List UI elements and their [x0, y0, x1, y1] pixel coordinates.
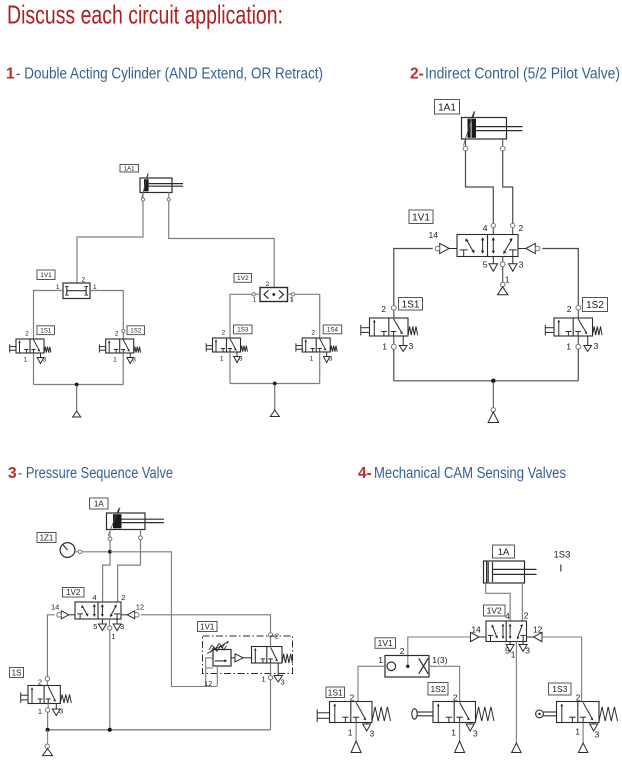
valve 1S2 (3/2 NC pushbutton) — [106, 339, 134, 353]
svg-text:Mechanical CAM Sensing Valves: Mechanical CAM Sensing Valves — [374, 465, 566, 482]
svg-text:4-: 4- — [358, 465, 372, 482]
valve 1S1 label (circuit 4) — [326, 687, 345, 698]
heading circuit 2 — [410, 66, 620, 83]
svg-text:12: 12 — [204, 679, 212, 688]
cylinder 1A1 label (circuit 1) — [120, 165, 139, 173]
svg-text:1: 1 — [6, 66, 15, 83]
pilot wire 12 to valve 1S2 port 2 — [542, 249, 578, 306]
cylinder 1A label (circuit 3) — [90, 498, 109, 509]
svg-text:14: 14 — [429, 230, 439, 240]
pilot 12 of 1V2 c4 — [527, 636, 534, 638]
air source under 1V1 — [498, 287, 508, 295]
valve 1V2 (5/2 pilot valve, circuit 4) — [486, 621, 527, 642]
svg-text:1: 1 — [310, 356, 314, 363]
heading circuit 3 — [8, 465, 173, 482]
junction dot circuit 2 — [491, 379, 495, 383]
supply bus circuit 1 left loop — [34, 384, 124, 386]
svg-text:1S3: 1S3 — [552, 684, 567, 694]
wire cylinder left port to 1V2 port 4 (c4) — [486, 583, 510, 621]
heading circuit 1 — [6, 66, 323, 83]
svg-text:2: 2 — [38, 678, 42, 687]
svg-text:1: 1 — [566, 342, 571, 352]
svg-text:Indirect Control (5/2 Pilot Va: Indirect Control (5/2 Pilot Valve) — [425, 66, 620, 83]
pressure gauge 1Z1 label — [37, 533, 56, 543]
svg-text:1: 1 — [261, 675, 265, 684]
cylinder 1A1 (circuit 2) — [462, 118, 507, 140]
svg-text:1S1: 1S1 — [328, 687, 343, 697]
wire 1S3 port 1 down to supply bus — [229, 352, 231, 384]
wire gauge to junction — [82, 551, 110, 553]
svg-text:1V1: 1V1 — [412, 212, 430, 223]
svg-text:1: 1 — [290, 297, 294, 304]
air source left loop — [73, 411, 81, 417]
pilot 12 of 1V1 — [518, 248, 526, 250]
wire 1V2 right port to valve 1S4 port 2 — [288, 293, 292, 295]
svg-text:Discuss each circuit applicati: Discuss each circuit application: — [7, 0, 283, 30]
supply line 1V2 port 1 down to air source (c4) — [515, 642, 517, 744]
port stub left cylinder (c3) — [109, 530, 111, 537]
svg-text:2: 2 — [519, 223, 524, 233]
wire cylinder left port to valve 1V1 port 2 — [77, 201, 143, 283]
junction dot left loop — [75, 383, 79, 387]
svg-text:5: 5 — [505, 646, 510, 656]
svg-text:2: 2 — [115, 331, 119, 338]
cylinder 1A1 label (circuit 2) — [435, 100, 460, 115]
svg-text:3: 3 — [473, 729, 478, 739]
pilot wire 14 down to valve 1S port 2 — [47, 615, 54, 677]
svg-text:1: 1 — [253, 297, 257, 304]
svg-text:3: 3 — [239, 356, 243, 363]
svg-text:1S3: 1S3 — [554, 550, 571, 561]
svg-text:1: 1 — [38, 707, 42, 716]
svg-text:3: 3 — [8, 465, 17, 482]
wire 1V1 right port to valve 1S2 port 2 (c4) — [429, 666, 460, 701]
supply bus circuit 3 — [48, 729, 271, 731]
valve 1S2 label (circuit 2) — [583, 298, 608, 312]
svg-text:12: 12 — [136, 603, 144, 612]
pilot 14 of 1V1 — [449, 248, 457, 250]
wire 1V1 left port to valve 1S1 port 2 — [34, 291, 64, 340]
svg-text:1: 1 — [575, 727, 580, 737]
adjustment spring of 1V1 — [209, 643, 225, 650]
svg-text:1S4: 1S4 — [327, 327, 339, 334]
svg-text:3: 3 — [594, 341, 599, 351]
wire 1S2 port 1 to bus — [577, 336, 579, 344]
wire 1S1 port 1 to air source (c4) — [355, 723, 357, 742]
pilot wire 12 to valve 1S3 port 2 (c4) — [542, 637, 581, 702]
supply line 1V2 port 1 down to bus — [109, 619, 111, 626]
svg-text:2-: 2- — [410, 66, 424, 83]
pressure gauge 1Z1 — [60, 543, 75, 558]
svg-text:3: 3 — [281, 678, 285, 687]
pilot line 12 of 1V1 — [206, 658, 213, 687]
valve 1V2 label (circuit 3) — [63, 588, 85, 598]
svg-text:1S1: 1S1 — [402, 299, 420, 310]
svg-text:1: 1 — [111, 632, 115, 641]
svg-text:3: 3 — [59, 707, 63, 716]
svg-text:1A1: 1A1 — [438, 102, 456, 113]
valve 1S2 (3/2 NC plunger, circuit 4) — [433, 702, 476, 723]
svg-text:2: 2 — [275, 632, 279, 641]
svg-text:- Pressure Sequence Valve: - Pressure Sequence Valve — [18, 465, 173, 482]
valve 1S1 (3/2 NC pushbutton) — [16, 339, 44, 353]
junction dot right loop — [273, 382, 277, 386]
svg-text:3: 3 — [370, 729, 375, 739]
wire cylinder right port to valve 1V2 port 2 — [169, 201, 275, 287]
shuttle valve 1V2 (OR) — [260, 288, 288, 302]
check path of 1V1 — [231, 657, 235, 659]
air source under 1V2 c4 — [512, 743, 521, 753]
valve 1V2 label (circuit 4) — [484, 605, 506, 616]
valve 1V1 (two-pressure AND valve, circuit 4) — [385, 656, 429, 678]
relief element of 1V1 — [213, 650, 231, 667]
svg-text:1V1: 1V1 — [378, 638, 393, 648]
wire 1S1 port 1 to bus — [393, 336, 395, 344]
port stub right cylinder (c2) — [502, 139, 504, 146]
svg-text:1: 1 — [348, 728, 353, 738]
svg-text:1V1: 1V1 — [200, 622, 215, 631]
wire 1V2 left port to valve 1S3 port 2 — [255, 293, 260, 295]
supply line port 1 of 1V1 — [502, 257, 504, 263]
cylinder 1A label (circuit 4) — [493, 545, 515, 558]
svg-text:2: 2 — [121, 593, 125, 602]
wire junction to sequence-valve pilot line (down right side) — [110, 552, 217, 687]
svg-text:2: 2 — [576, 693, 581, 703]
svg-text:2: 2 — [222, 330, 226, 337]
svg-text:1A: 1A — [94, 499, 104, 508]
valve 1S label (circuit 3) — [10, 668, 24, 678]
pilot 14 of 1V2 c3 — [69, 614, 75, 616]
junction dot bus middle c3 — [108, 728, 112, 732]
pilot 12 of 1V2 c3 — [121, 614, 127, 616]
svg-text:2: 2 — [82, 277, 86, 284]
valve 1S3 (3/2 NC roller, circuit 4) — [557, 702, 600, 723]
svg-text:1V1: 1V1 — [40, 272, 52, 279]
valve 1V1 label (circuit 4) — [375, 638, 396, 649]
svg-text:3: 3 — [132, 357, 136, 364]
two-pressure valve 1V1 label — [37, 270, 55, 280]
heading circuit 4 — [358, 465, 566, 482]
svg-text:3: 3 — [120, 622, 124, 631]
svg-text:1S2: 1S2 — [430, 684, 445, 694]
valve 1S3 (3/2 NC pushbutton) — [213, 338, 241, 352]
svg-text:5: 5 — [483, 260, 488, 270]
svg-text:1A: 1A — [498, 547, 510, 558]
svg-text:2: 2 — [524, 611, 529, 621]
svg-text:4: 4 — [483, 223, 488, 233]
valve 1V1 (5/2 pilot valve) — [457, 235, 518, 257]
valve 1S1 label (circuit 2) — [399, 298, 423, 311]
wire 1S2 port 1 to air source (c4) — [459, 723, 461, 742]
svg-text:2: 2 — [567, 304, 572, 314]
3/2 element of 1V1 — [252, 647, 283, 664]
svg-text:1: 1 — [511, 650, 516, 660]
svg-text:4: 4 — [505, 611, 510, 621]
valve 1S (3/2 NC pushbutton, circuit 3) — [28, 686, 60, 704]
svg-text:5: 5 — [93, 622, 97, 631]
valve 1S4 label — [323, 325, 342, 334]
wire 1V1 left port to valve 1S1 port 2 (c4) — [358, 666, 385, 701]
cylinder 1A (circuit 4) — [484, 561, 525, 583]
svg-text:3: 3 — [43, 357, 47, 364]
air source right loop — [270, 410, 279, 417]
cylinder 1A (circuit 3) — [107, 513, 146, 530]
two-pressure valve 1V1 (AND) — [63, 283, 90, 299]
port stub right cylinder (c3) — [140, 530, 142, 536]
wire 1S1 port 1 down to supply bus — [33, 353, 35, 385]
valve 1S1 (3/2 NC plunger, circuit 4) — [330, 702, 373, 723]
air source under 1S1 c4 — [351, 741, 361, 753]
svg-text:1Z1: 1Z1 — [40, 533, 54, 542]
svg-text:12: 12 — [533, 625, 543, 635]
sequence valve 1V1 label (circuit 3) — [198, 622, 218, 632]
supply stub c3 — [47, 730, 49, 744]
svg-text:1S2: 1S2 — [130, 327, 142, 334]
valve 1V1 label (circuit 2) — [409, 210, 433, 224]
valve 1V2 (5/2 pilot valve, circuit 3) — [75, 602, 121, 619]
svg-text:1: 1 — [505, 275, 510, 285]
valve 1S3 label (circuit 4) — [549, 683, 572, 695]
valve 1S2 (3/2 NC pushbutton, circuit 2) — [554, 318, 593, 336]
svg-text:3: 3 — [595, 730, 600, 740]
wire cylinder left port to 5/2 valve port 4 — [466, 151, 494, 223]
svg-text:1(3): 1(3) — [432, 655, 447, 665]
svg-text:2: 2 — [25, 331, 29, 338]
svg-text:1: 1 — [378, 655, 383, 665]
valve 1S3 label — [234, 325, 253, 334]
wire 1S3 port 1 to air source (c4) — [582, 723, 584, 744]
pilot wire 14 to valve 1S1 port 2 — [394, 249, 433, 306]
svg-text:- Double Acting Cylinder (AND: - Double Acting Cylinder (AND Extend, OR… — [16, 66, 323, 83]
pilot 14 of 1V2 c4 — [479, 636, 486, 638]
supply stub left loop — [76, 385, 78, 412]
svg-text:3: 3 — [519, 260, 524, 270]
svg-text:2: 2 — [381, 304, 386, 314]
svg-text:3: 3 — [525, 646, 530, 656]
svg-text:2: 2 — [311, 330, 315, 337]
shuttle valve 1V2 label — [234, 274, 252, 283]
supply bus circuit 1 right loop — [230, 383, 320, 385]
svg-text:1V2: 1V2 — [66, 588, 81, 597]
svg-text:1: 1 — [23, 357, 27, 364]
wire cylinder left port down through junction to 5/2 port 4 — [103, 541, 110, 602]
port stub right cylinder 1A1 — [168, 193, 170, 198]
valve 1S1 label — [37, 326, 55, 335]
svg-text:1S3: 1S3 — [237, 327, 249, 334]
svg-text:1: 1 — [113, 357, 117, 364]
svg-text:1: 1 — [220, 356, 224, 363]
air source under 1S3 c4 — [578, 743, 588, 753]
port 2 line of 1V1 (inside) — [270, 637, 272, 647]
pilot wire 12 to sequence valve 1V1 output — [141, 615, 270, 633]
svg-text:1A1: 1A1 — [124, 166, 135, 172]
wire cylinder right port to 5/2 valve port 2 — [503, 151, 513, 223]
wire cylinder right port to 1V2 port 2 (c4) — [521, 583, 523, 621]
svg-text:2: 2 — [400, 646, 405, 656]
supply bus circuit 2 — [394, 380, 579, 382]
wire 1V1 right port to valve 1S2 port 2 — [90, 291, 123, 340]
junction dot at gauge tap — [108, 550, 112, 554]
svg-text:14: 14 — [51, 603, 59, 612]
valve 1S2 label (circuit 4) — [428, 683, 448, 696]
wire 1S port 1 to bus — [47, 704, 49, 708]
valve 1S1 (3/2 NC pushbutton, circuit 2) — [370, 318, 409, 336]
sequence valve 1V1 enclosure (dash-dot) — [203, 636, 293, 674]
valve 1S2 label — [127, 326, 145, 335]
svg-text:1: 1 — [382, 342, 387, 352]
air source circuit 2 — [488, 412, 499, 423]
svg-text:2: 2 — [266, 281, 270, 288]
svg-text:3: 3 — [329, 356, 333, 363]
wire cylinder right port to 5/2 port 2 — [118, 540, 141, 602]
air source circuit 3 — [43, 749, 53, 756]
port stub left cylinder (c2) — [465, 139, 467, 146]
svg-text:3: 3 — [409, 341, 414, 351]
supply stub right loop — [274, 384, 276, 411]
svg-text:1S: 1S — [12, 668, 22, 677]
svg-text:1V2: 1V2 — [487, 606, 502, 616]
wire 1S4 port 1 down to supply bus — [319, 352, 321, 384]
svg-text:1S1: 1S1 — [40, 327, 52, 334]
svg-text:1V2: 1V2 — [237, 275, 249, 282]
svg-text:1S2: 1S2 — [586, 300, 604, 311]
svg-text:2: 2 — [350, 693, 355, 703]
port stub left cylinder 1A1 — [142, 193, 144, 198]
junction dot bus left c3 — [46, 728, 50, 732]
svg-text:14: 14 — [471, 625, 481, 635]
cylinder 1A1 (circuit 1) — [140, 178, 172, 193]
wire 1S2 port 1 down to supply bus — [122, 353, 124, 385]
valve 1S4 (3/2 NC pushbutton) — [302, 338, 330, 352]
air source under 1S2 c4 — [455, 741, 465, 753]
supply stub circuit 2 — [492, 381, 494, 408]
port 1 of 1V1 down to bus — [270, 663, 272, 676]
svg-text:1: 1 — [451, 728, 456, 738]
svg-text:4: 4 — [92, 593, 96, 602]
pilot wire 14 to valve 1V1 output (c4) — [408, 637, 471, 666]
svg-text:2: 2 — [453, 693, 458, 703]
